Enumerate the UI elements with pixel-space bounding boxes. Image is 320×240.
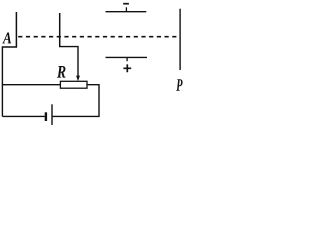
plus polarity sign <box>123 64 131 72</box>
electrode plate A (left accelerating electrode wire) <box>15 12 17 47</box>
node P label <box>176 79 182 91</box>
electrode 2 (right accelerating electrode wire) <box>59 13 61 47</box>
beam axis dashed line <box>18 36 179 38</box>
wire from electrode A down-left to bottom loop <box>2 47 17 116</box>
minus polarity sign <box>123 3 129 5</box>
screen P line <box>179 9 181 70</box>
wire left loop to resistor <box>2 84 60 86</box>
top plate lead stub <box>125 7 127 11</box>
resistor R label <box>57 66 66 78</box>
wire resistor to right vertical <box>87 85 99 117</box>
top deflection plate <box>106 11 147 13</box>
bottom wire right of battery <box>52 115 100 117</box>
bottom wire left of battery <box>2 115 44 117</box>
battery negative plate (short thick) <box>45 112 47 121</box>
bottom deflection plate <box>106 56 148 58</box>
node A label <box>2 33 11 44</box>
resistor R body <box>60 81 87 88</box>
bottom plate lead stub <box>126 57 128 61</box>
wire from electrode 2 to potentiometer wiper <box>59 47 78 77</box>
battery positive plate (long) <box>51 104 53 125</box>
wiper arrowhead onto resistor <box>76 76 80 82</box>
